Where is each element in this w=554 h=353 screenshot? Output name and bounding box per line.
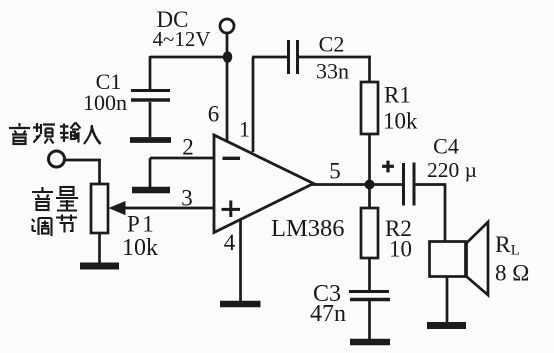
wire [150, 56, 228, 59]
node supply junction [223, 51, 233, 63]
ground [427, 322, 466, 329]
ground [132, 187, 170, 194]
svg-text:4: 4 [224, 230, 236, 255]
ground [350, 339, 390, 346]
DC input terminal [220, 19, 234, 33]
svg-text:47n: 47n [310, 301, 346, 327]
char 量 [56, 187, 78, 211]
wire pin4 [239, 220, 242, 302]
char 节 [56, 215, 77, 233]
resistor R2 [361, 208, 378, 258]
svg-text:5: 5 [329, 159, 341, 184]
op-amp U1 LM386 [214, 135, 314, 233]
wire [63, 159, 101, 162]
wire pin5 [312, 183, 369, 186]
plus input mark [222, 201, 241, 218]
potentiometer wiper arrow [109, 201, 126, 215]
wire [98, 160, 101, 184]
wire [149, 158, 152, 187]
svg-text:220 µ: 220 µ [427, 158, 477, 182]
svg-text:1: 1 [239, 117, 250, 142]
wire [98, 233, 101, 263]
label 音频输入 (audio input) [9, 123, 101, 145]
wire [368, 301, 371, 339]
wire [368, 258, 371, 290]
svg-text:R1: R1 [384, 83, 411, 108]
wire [369, 183, 403, 186]
ground [130, 137, 171, 143]
svg-text:100n: 100n [83, 90, 127, 115]
char 音 [32, 187, 53, 210]
wire [149, 56, 152, 89]
char 调 [32, 218, 52, 236]
plus polarity mark C4 [382, 161, 394, 173]
label 音量调节 (volume adjust) [32, 187, 78, 236]
svg-text:C2: C2 [319, 32, 345, 57]
node output junction [365, 180, 375, 190]
speaker RL [430, 222, 489, 295]
svg-text:8 Ω: 8 Ω [495, 261, 529, 286]
ground [220, 301, 261, 308]
svg-text:2: 2 [182, 135, 194, 160]
svg-text:4~12V: 4~12V [152, 27, 210, 51]
wire [444, 185, 447, 243]
svg-text:10: 10 [389, 237, 412, 262]
char 音 [9, 123, 30, 144]
potentiometer P1 [91, 184, 108, 233]
char 输 [60, 123, 81, 143]
minus input mark [223, 157, 241, 160]
svg-text:10k: 10k [122, 235, 158, 261]
svg-text:33n: 33n [316, 59, 349, 84]
svg-text:10k: 10k [383, 109, 418, 134]
ground [80, 263, 119, 270]
wire [226, 34, 229, 58]
wire [415, 183, 446, 186]
audio input terminal [49, 151, 65, 167]
wire pin2 [150, 157, 214, 160]
wire pin1 [252, 57, 287, 152]
svg-text:3: 3 [181, 186, 193, 211]
wire [149, 102, 152, 137]
char 入 [84, 125, 101, 144]
wire pin6 [226, 57, 229, 143]
capacitor C4 [404, 163, 415, 206]
capacitor C1 [131, 91, 170, 101]
svg-text:C4: C4 [433, 134, 459, 159]
char 频 [33, 123, 55, 144]
capacitor C3 [349, 292, 390, 300]
svg-text:P1: P1 [127, 212, 156, 237]
wire [368, 56, 371, 82]
resistor R1 [361, 82, 378, 134]
svg-text:LM386: LM386 [271, 215, 345, 242]
wire pin3 [124, 207, 213, 210]
wire [368, 134, 371, 209]
wire [446, 276, 449, 322]
wire [298, 56, 371, 59]
svg-text:6: 6 [208, 102, 220, 127]
capacitor C2 [289, 40, 298, 74]
